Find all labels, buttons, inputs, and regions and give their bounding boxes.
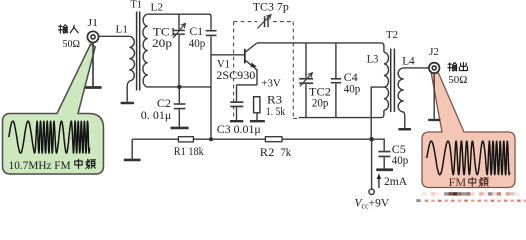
T2 core xyxy=(391,49,395,113)
emitter junction wire xyxy=(237,84,258,86)
wire junction to C5 xyxy=(372,139,385,150)
dashed neutralization box xyxy=(234,22,299,119)
svg-text:C5: C5 xyxy=(392,144,406,156)
inductor L2 xyxy=(143,14,148,87)
capacitor C1 xyxy=(206,30,217,32)
capacitor C4 xyxy=(335,43,337,118)
wire L1 to ground xyxy=(127,81,129,102)
svg-text:R1 18k: R1 18k xyxy=(174,146,204,158)
decor dash row 1 xyxy=(422,192,519,195)
wire L4 to J2 xyxy=(404,67,429,69)
svg-text:20p: 20p xyxy=(152,38,172,50)
svg-text:C1: C1 xyxy=(190,26,204,38)
decor dash row 2 xyxy=(416,199,526,202)
inductor L4 xyxy=(398,68,404,112)
svg-text:40p: 40p xyxy=(189,38,206,50)
output connector J2 xyxy=(429,63,440,74)
ground R3 xyxy=(250,120,265,122)
junction dot C2 tap xyxy=(177,85,181,89)
trimmer TC1 xyxy=(178,14,180,87)
svg-text:Vcc+9V: Vcc+9V xyxy=(355,198,390,211)
Vcc terminal xyxy=(369,189,374,194)
svg-text:2SC930: 2SC930 xyxy=(216,70,255,82)
L3 tap wire xyxy=(371,87,384,139)
wire J1 to L1 xyxy=(99,35,130,37)
svg-text:L1: L1 xyxy=(116,24,129,36)
trimmer TC3 xyxy=(264,16,266,27)
ground C3 xyxy=(230,120,244,122)
ground J1 redraw xyxy=(85,86,102,89)
ground L1 xyxy=(121,102,135,104)
resistor R2 xyxy=(265,137,282,142)
bias rail left ground drop xyxy=(131,139,133,158)
wire J1 to ground redraw xyxy=(92,43,94,86)
svg-text:40p: 40p xyxy=(392,155,409,167)
ground J2 xyxy=(428,119,440,121)
label 输入 xyxy=(59,25,79,33)
svg-text:40p: 40p xyxy=(344,83,361,95)
2mA current arrow xyxy=(378,178,380,189)
wire L4 to ground xyxy=(404,112,405,128)
svg-text:R3: R3 xyxy=(267,94,282,106)
bias/base vertical wire xyxy=(210,36,212,139)
capacitor C5 xyxy=(378,151,390,153)
T1 core xyxy=(137,12,140,91)
resistor R3 xyxy=(254,97,260,113)
base wire xyxy=(211,54,244,56)
transistor V1 xyxy=(244,49,246,64)
trimmer TC2 xyxy=(305,43,307,118)
svg-text:1. 5k: 1. 5k xyxy=(266,106,286,118)
tank2 bottom rail xyxy=(299,110,384,117)
input connector J1 xyxy=(87,31,98,42)
inductor L3 xyxy=(384,52,389,110)
svg-text:2mA: 2mA xyxy=(384,176,408,188)
ground C2 xyxy=(171,127,189,130)
svg-text:TC2: TC2 xyxy=(309,86,331,98)
svg-text:+3V: +3V xyxy=(261,78,281,90)
label 输出 xyxy=(448,63,468,71)
wire J1 to ground xyxy=(92,43,94,86)
tank1 top rail xyxy=(148,14,211,30)
svg-text:T1: T1 xyxy=(131,0,143,11)
svg-text:C4: C4 xyxy=(344,72,358,84)
green callout bubble xyxy=(3,44,104,174)
pink callout bubble xyxy=(422,71,515,187)
svg-text:20p: 20p xyxy=(312,98,329,110)
svg-text:T2: T2 xyxy=(386,29,398,41)
Vcc junction dot xyxy=(369,137,374,142)
ground C5 xyxy=(376,168,393,171)
output FM waveform xyxy=(427,141,510,175)
capacitor C3 xyxy=(236,85,238,101)
bias rail xyxy=(132,138,371,140)
svg-text:TC1: TC1 xyxy=(153,27,177,39)
svg-text:0. 01μ: 0. 01μ xyxy=(141,110,172,122)
svg-text:L4: L4 xyxy=(402,56,415,68)
svg-text:7k: 7k xyxy=(281,147,292,159)
svg-text:L2: L2 xyxy=(151,2,164,14)
svg-text:J1: J1 xyxy=(88,17,99,29)
tank1 bottom rail xyxy=(148,86,211,88)
svg-text:J2: J2 xyxy=(429,46,439,58)
svg-text:L3: L3 xyxy=(367,54,379,66)
svg-text:C2: C2 xyxy=(157,98,171,110)
svg-text:R2: R2 xyxy=(260,147,275,159)
wire junction to Vcc terminal xyxy=(371,139,373,189)
collector rail xyxy=(257,43,384,52)
input FM waveform xyxy=(9,121,90,153)
svg-text:TC3 7p: TC3 7p xyxy=(253,2,289,14)
resistor R1 xyxy=(178,137,193,142)
svg-text:50Ω: 50Ω xyxy=(63,38,81,50)
ground bias left xyxy=(124,159,141,162)
ground J1 xyxy=(85,86,102,89)
capacitor C2 xyxy=(178,87,180,103)
svg-text:50Ω: 50Ω xyxy=(448,74,467,86)
svg-text:C3 0.01μ: C3 0.01μ xyxy=(217,124,261,136)
svg-text:10.7MHz FM: 10.7MHz FM xyxy=(9,158,71,172)
svg-text:FM: FM xyxy=(449,177,467,189)
wire J2 to ground xyxy=(433,74,435,119)
junction dot base bias xyxy=(209,137,213,141)
svg-text:V1: V1 xyxy=(217,58,230,70)
ground L4 xyxy=(398,128,411,131)
inductor L1 xyxy=(129,36,134,81)
